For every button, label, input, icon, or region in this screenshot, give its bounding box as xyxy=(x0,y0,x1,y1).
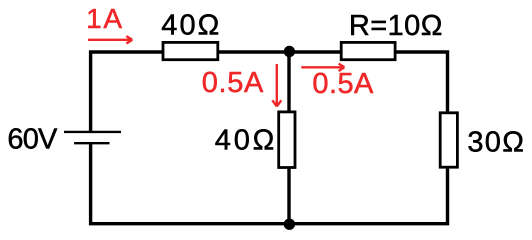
resistor R1 40ohm horizontal xyxy=(163,42,218,59)
svg-text:0.5A: 0.5A xyxy=(202,67,264,99)
svg-text:40Ω: 40Ω xyxy=(161,10,219,42)
svg-text:R=10Ω: R=10Ω xyxy=(349,10,443,42)
svg-text:30Ω: 30Ω xyxy=(467,126,524,158)
resistor R4 30ohm vertical right xyxy=(440,113,457,167)
battery V1 60V plates xyxy=(64,131,121,133)
svg-text:1A: 1A xyxy=(86,3,122,34)
current arrow 1A xyxy=(88,36,132,43)
node A top junction dot xyxy=(284,46,295,57)
resistor R3 40ohm vertical middle xyxy=(279,112,295,168)
wire middle branch xyxy=(287,52,290,224)
wire outer loop (top, left, right, bottom with battery gap) xyxy=(91,52,448,224)
node B bottom junction dot xyxy=(284,219,295,230)
svg-text:40Ω: 40Ω xyxy=(215,124,274,156)
current arrow 0.5A right xyxy=(301,64,344,71)
current arrow 0.5A down xyxy=(272,64,281,106)
svg-text:0.5A: 0.5A xyxy=(312,68,374,100)
resistor R2 10ohm horizontal xyxy=(341,42,395,59)
svg-text:60V: 60V xyxy=(7,124,58,156)
